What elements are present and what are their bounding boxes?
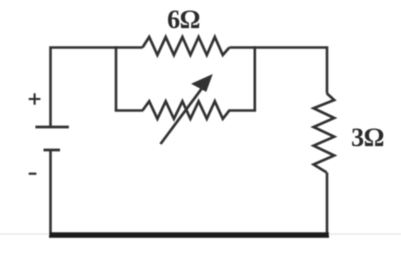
rheostat arrowhead [192, 75, 212, 91]
svg-text:3Ω: 3Ω [351, 123, 384, 152]
wire: top wire right segment to top-right corner [229, 48, 327, 94]
wire: lower branch lead right [229, 109, 257, 112]
label - [29, 173, 37, 175]
bottom wire (thick) [49, 232, 329, 238]
node A: left junction of parallel branch [115, 46, 118, 110]
rheostat arrow shaft [161, 86, 204, 144]
wire: top wire left segment (battery + to left node) [51, 48, 143, 128]
rheostat R2 zigzag (variable resistor) [143, 101, 230, 119]
wire: battery negative to bottom wire [49, 150, 52, 235]
resistor 6ohm zigzag [143, 37, 230, 55]
label + [29, 93, 41, 104]
battery negative plate (short) [44, 149, 61, 152]
resistor 3ohm zigzag [314, 93, 335, 172]
wire: lower branch lead left [115, 109, 143, 112]
faint table rule under bottom wire [0, 233, 401, 235]
node B: right junction of parallel branch [254, 46, 257, 110]
svg-text:6Ω: 6Ω [167, 5, 200, 34]
wire: right side lower segment [326, 173, 329, 236]
battery positive plate (long) [35, 126, 69, 129]
